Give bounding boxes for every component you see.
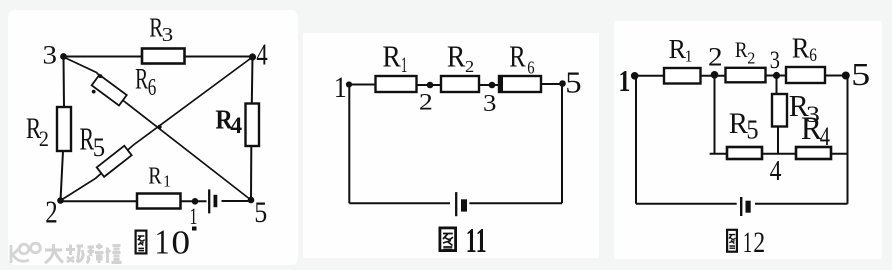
resistor R4 fig12 xyxy=(796,110,831,159)
panel figure 12 background xyxy=(614,21,882,259)
resistor R1 fig11 xyxy=(376,40,417,92)
node 2 fig11 xyxy=(419,82,433,115)
battery fig10 xyxy=(209,189,217,213)
wire top 3-4 fig10 xyxy=(64,56,253,58)
node 1 fig10 (junction, label, dot) xyxy=(189,198,198,231)
svg-text:4: 4 xyxy=(230,113,242,139)
svg-text:5: 5 xyxy=(93,132,105,162)
wire R6-node5 fig12 xyxy=(825,75,848,77)
wire node2 vertical fig12 xyxy=(714,76,716,154)
wire left 3-2 fig10 xyxy=(61,57,65,201)
wire node1-R1 fig11 xyxy=(349,84,376,86)
svg-text:R: R xyxy=(735,38,748,63)
battery fig11 xyxy=(456,192,467,216)
svg-text:R: R xyxy=(669,33,686,64)
svg-text:2: 2 xyxy=(753,226,765,259)
wire right vertical fig11 xyxy=(561,84,563,204)
svg-text:R: R xyxy=(447,40,466,74)
wire bottom right battery-5 fig10 xyxy=(222,200,252,202)
node 5 fig11 xyxy=(559,66,581,100)
svg-text:4: 4 xyxy=(770,155,782,186)
svg-text:1: 1 xyxy=(155,224,170,262)
junction dot diagonals crossing fig10 xyxy=(157,125,161,129)
svg-text:5: 5 xyxy=(254,197,267,230)
wire R2-node3 fig12 xyxy=(766,75,787,77)
watermark text 大数跨境 xyxy=(45,244,122,264)
wire bottom right fig12 xyxy=(755,203,848,205)
resistor R5 fig12 xyxy=(727,108,762,159)
wire R1-node2 fig12 xyxy=(701,75,726,77)
caption fig12 xyxy=(727,226,765,260)
wire left vertical fig11 xyxy=(348,85,350,204)
wire R2-R6 fig11 xyxy=(479,84,499,86)
wire bottom left 2-battery fig10 xyxy=(61,200,207,202)
svg-text:2: 2 xyxy=(747,48,755,67)
wire bottom right fig11 xyxy=(469,202,562,204)
svg-text:1: 1 xyxy=(163,173,171,190)
svg-text:1: 1 xyxy=(743,227,752,259)
resistor R4 fig10 xyxy=(215,104,259,147)
node 1 fig12 xyxy=(619,63,639,98)
caption fig11 xyxy=(440,222,487,260)
resistor R3 fig12 xyxy=(772,89,820,128)
svg-text:3: 3 xyxy=(770,46,780,73)
svg-text:R: R xyxy=(792,31,810,63)
node 3 fig10 xyxy=(43,40,67,69)
node 5 fig12 xyxy=(842,57,870,92)
svg-text:6: 6 xyxy=(809,45,817,66)
wire bottom left fig12 xyxy=(636,203,737,205)
caption fig10 xyxy=(136,223,191,262)
resistor R1 fig12 xyxy=(664,33,701,84)
resistor R1 fig10 xyxy=(137,162,181,209)
wire middle rail fig12 xyxy=(710,153,848,155)
svg-text:5: 5 xyxy=(851,57,870,92)
battery fig12 xyxy=(741,197,751,216)
svg-text:6: 6 xyxy=(527,57,534,78)
resistor R5 tilted fig10 xyxy=(80,121,132,176)
wire diagonal 2-4 fig10 xyxy=(61,57,253,201)
resistor R2 fig12 xyxy=(726,38,766,83)
resistor R6 fig12 xyxy=(786,31,825,83)
wire bottom left fig11 xyxy=(349,202,450,204)
node 5 fig10 xyxy=(248,197,268,230)
svg-text:R: R xyxy=(729,108,749,141)
resistor R2 fig11 xyxy=(441,40,479,92)
svg-text:1: 1 xyxy=(189,204,197,229)
wire diagonal 3-5 fig10 xyxy=(64,57,252,200)
node 4 fig12 xyxy=(770,155,782,186)
svg-text:3: 3 xyxy=(43,40,57,69)
svg-text:1: 1 xyxy=(334,71,347,104)
panel figure 11 background xyxy=(303,33,599,258)
svg-text:0: 0 xyxy=(171,223,190,261)
svg-text:5: 5 xyxy=(565,66,581,100)
watermark logo xyxy=(11,243,40,263)
svg-text:1: 1 xyxy=(476,222,487,260)
svg-text:2: 2 xyxy=(708,43,723,72)
svg-text:R: R xyxy=(135,63,148,96)
svg-text:2: 2 xyxy=(465,57,474,76)
wire R1-R2 fig11 xyxy=(417,84,442,86)
wire R6-node5 fig11 xyxy=(541,83,563,85)
resistor R2 fig10 xyxy=(26,107,71,151)
svg-text:4: 4 xyxy=(820,123,830,152)
svg-text:2: 2 xyxy=(45,194,57,230)
node 2 fig12 xyxy=(708,43,723,79)
svg-text:1: 1 xyxy=(401,52,407,77)
svg-text:R: R xyxy=(509,40,526,74)
svg-text:6: 6 xyxy=(148,73,157,101)
node 3 fig12 xyxy=(770,46,780,79)
wire right vertical fig12 xyxy=(847,76,849,204)
svg-text:2: 2 xyxy=(419,89,433,115)
svg-text:R: R xyxy=(148,162,161,189)
resistor R6 fig11 xyxy=(498,40,541,93)
svg-text:5: 5 xyxy=(746,114,758,145)
svg-text:R: R xyxy=(382,40,401,74)
svg-text:1: 1 xyxy=(466,222,477,260)
node 2 fig10 xyxy=(45,194,64,230)
node 3 fig11 xyxy=(483,82,496,117)
svg-text:1: 1 xyxy=(685,48,693,65)
node 4 fig10 xyxy=(249,37,268,71)
node 1 fig11 xyxy=(334,71,352,104)
resistor R3 fig10 xyxy=(142,13,185,64)
wire left vertical fig12 xyxy=(635,76,637,204)
wire node3-R3 fig12 xyxy=(776,76,778,95)
svg-text:3: 3 xyxy=(162,24,173,46)
svg-text:2: 2 xyxy=(39,126,49,151)
wire R3-node4 fig12 xyxy=(777,127,779,154)
panel figure 10 background xyxy=(8,10,298,265)
svg-text:3: 3 xyxy=(483,89,496,117)
svg-text:1: 1 xyxy=(619,63,631,98)
resistor R6 tilted fig10 xyxy=(92,63,157,106)
wire node1-R1 fig12 xyxy=(635,75,664,77)
wire right 4-5 fig10 xyxy=(251,57,253,200)
svg-text:4: 4 xyxy=(256,37,268,71)
